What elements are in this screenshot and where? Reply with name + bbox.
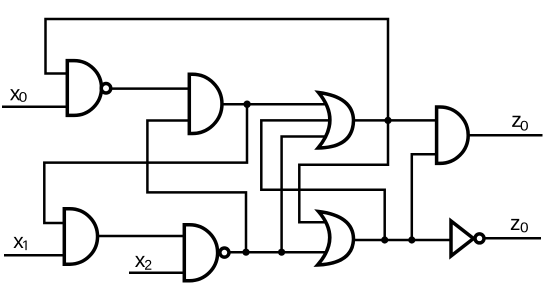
label input x1: [13, 237, 23, 248]
AND gate U2 (top middle): [189, 74, 222, 133]
NAND gate U6 output bubble: [220, 248, 229, 257]
label input x0: [10, 89, 20, 100]
junction OR2 output node b: [408, 236, 415, 243]
label input x2: [135, 256, 145, 267]
junction NAND5 output node a: [242, 249, 249, 256]
wire x2 input: [129, 272, 183, 275]
wire AND2 output to OR1 top input: [221, 103, 327, 106]
inverter U8 output bubble: [475, 234, 484, 243]
NAND gate U1 output bubble: [101, 84, 111, 94]
AND gate U4 (output gate z0 top): [437, 107, 469, 163]
wire inverter output z0: [485, 237, 541, 240]
wire x1 input: [4, 254, 63, 257]
wire net Q: top feedback from OR1 output up over to NAND1 input: [46, 19, 389, 120]
wire OR2 output to inverter input: [353, 239, 452, 242]
label output z0 (AND3): [512, 116, 521, 127]
NAND gate U6 (bottom middle, input x2): [184, 225, 217, 281]
wire OR2 output feedback to OR1 middle input: [261, 120, 384, 240]
wire NAND5 output to OR2 bottom input: [230, 251, 328, 254]
inverter U8 (output z0 bottom): [451, 221, 474, 256]
wire net Q branch down to OR2 top input: [299, 118, 388, 222]
NAND gate U1 (top left, inputs Q and x0): [67, 61, 101, 116]
junction NAND5 output node b: [278, 249, 285, 256]
wire NAND1 output to AND2 input: [111, 87, 188, 90]
OR gate U3 (right upper, 3 inputs): [318, 93, 354, 149]
wire x0 input: [2, 106, 66, 109]
junction AND2 output node: [243, 101, 250, 108]
junction OR1 output / Q node: [384, 117, 391, 124]
wire NAND5 output feedback to AND2 bottom input: [147, 121, 246, 253]
junction OR2 output node a: [381, 236, 388, 243]
OR gate U7 (right lower, 2 inputs): [318, 212, 354, 266]
label output z0 (inverter): [511, 219, 520, 230]
wire OR2 output branch up to AND3 bottom input: [412, 154, 435, 240]
wire AND2 output branch down-left to AND4 top input: [44, 104, 247, 223]
wire AND4 output to NAND5 input: [96, 235, 183, 238]
wire OR1 output to AND3 top input: [353, 119, 435, 122]
AND gate U5 (bottom left, inputs x1): [64, 209, 97, 265]
wire AND3 output z0: [466, 134, 543, 137]
wire NAND5 output branch up to OR1 bottom input: [282, 137, 327, 253]
